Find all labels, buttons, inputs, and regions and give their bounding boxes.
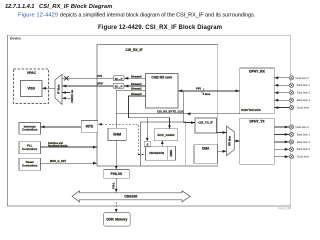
32toP box 1 (113, 76, 124, 81)
svg-text:Clock lane: Clock lane (297, 155, 310, 159)
svg-text:CBASS0: CBASS0 (124, 194, 137, 198)
wire VP2 right + arrow (124, 85, 146, 87)
PSILSS box (104, 170, 130, 179)
wire VP1 left (62, 77, 113, 79)
svg-text:VISS: VISS (27, 87, 35, 91)
inner config sub-box (141, 122, 186, 166)
TX pad wires (274, 127, 289, 157)
reset wire (41, 162, 98, 164)
svg-text:Stream1: Stream1 (131, 82, 142, 86)
PPI double arrow (178, 90, 240, 92)
svg-text:CSI_TX_IF: CSI_TX_IF (198, 120, 213, 124)
RX bond pads (289, 76, 293, 110)
svg-text:Stream2: Stream2 (131, 87, 142, 91)
svg-text:Data lane 0: Data lane 0 (296, 125, 310, 129)
wire stream2 to SHIM (116, 90, 145, 128)
svg-text:Controllers: Controllers (22, 147, 38, 151)
svg-text:Clock lane: Clock lane (297, 106, 310, 110)
VPAC dashed box (14, 69, 49, 104)
svg-text:Figure 12-4429. CSI_RX_IF Bloc: Figure 12-4429. CSI_RX_IF Block Diagram (98, 25, 222, 31)
svg-text:Data lane 0: Data lane 0 (296, 76, 310, 80)
svg-text:Controllers: Controllers (22, 128, 38, 132)
svg-text:VP2*: VP2* (97, 81, 104, 85)
wire DMA to mux (218, 150, 227, 152)
slave port small box (144, 141, 151, 146)
mux select input arrows (62, 92, 71, 94)
svg-text:CSI_RX_IF: CSI_RX_IF (125, 48, 142, 52)
svg-text:PPI: PPI (196, 86, 201, 90)
svg-text:RXBYTECLKHS: RXBYTECLKHS (241, 108, 261, 112)
PLL Controllers box (19, 142, 41, 154)
svg-text:5 lane: 5 lane (203, 92, 211, 96)
wire PSILSS to CBASS0 (115, 178, 117, 192)
VISS box (21, 81, 43, 97)
wire stream3 to config bus (129, 96, 170, 118)
CSI2 RX core box (146, 74, 179, 109)
svg-text:MOD_G_RST: MOD_G_RST (50, 159, 67, 163)
wire VP2 left + arrow into mux (62, 85, 113, 87)
svg-text:PSI-L: PSI-L (113, 182, 116, 189)
svg-text:S: S (147, 142, 149, 146)
Reset Controllers box (19, 158, 41, 170)
X mark on VP1 (64, 76, 68, 80)
svg-text:DPHY_RX: DPHY_RX (249, 69, 265, 73)
CSI_TX_IF box (195, 118, 217, 133)
TX PPI mux trapezoid (227, 126, 235, 156)
svg-text:PPI Mux: PPI Mux (228, 135, 232, 146)
VBUS2APB box (146, 146, 168, 160)
RX pad wires (274, 78, 289, 108)
svg-text:Data lane 3: Data lane 3 (297, 98, 311, 102)
TX pad labels (296, 125, 311, 159)
svg-text:DPHY_TX: DPHY_TX (249, 120, 265, 124)
clock wire (41, 146, 98, 148)
wire SHIM to PSILSS (115, 141, 117, 170)
svg-text:Stream3: Stream3 (131, 92, 142, 96)
wire INTD to interrupt controllers (41, 126, 82, 128)
TX bond pads (289, 125, 293, 159)
svg-text:SHIM: SHIM (113, 133, 121, 137)
svg-text:32→P: 32→P (115, 77, 123, 81)
wire PPI tap to CSI_TX_IF (184, 91, 195, 123)
Device box (8, 35, 291, 206)
svg-text:Figure 12-4429: Figure 12-4429 (18, 12, 58, 18)
wire mux to DPHY_TX (234, 140, 240, 142)
svg-text:Controllers: Controllers (22, 163, 38, 167)
DPHY_TX box (240, 118, 274, 164)
dashed wire CBASS0 to DDR (115, 202, 117, 213)
CSI_RX_IF box (97, 45, 218, 167)
svg-text:Data lane 2: Data lane 2 (297, 140, 311, 144)
svg-text:MMR: MMR (169, 150, 173, 157)
svg-text:CSI_RX_BYTE_CLK: CSI_RX_BYTE_CLK (157, 110, 183, 114)
svg-text:VP1: VP1 (97, 74, 103, 78)
svg-text:Data lane 1: Data lane 1 (297, 132, 311, 136)
CBASS0 interconnect arrow (72, 191, 190, 202)
ECC_AGGR box (154, 129, 177, 141)
lane slash (202, 89, 205, 94)
drop to ECC_AGGR (169, 118, 171, 129)
svg-text:CSI2 RX core: CSI2 RX core (151, 75, 172, 79)
SHIM box (108, 128, 126, 140)
mux output arrow to VISS (42, 87, 55, 89)
DMA box (194, 145, 218, 164)
svg-text:CSI2RX sel: CSI2RX sel (71, 90, 74, 104)
wire CSI_TX_IF to mux (217, 132, 227, 134)
IF mux trapezoid (55, 74, 62, 104)
svg-text:ECC_AGGR: ECC_AGGR (157, 133, 175, 137)
svg-text:32→P: 32→P (115, 84, 123, 88)
drop to slave port box (146, 118, 148, 142)
svg-text:VPAC: VPAC (27, 71, 37, 75)
svg-text:PSILSS: PSILSS (111, 172, 122, 176)
DDR memory box (104, 213, 131, 227)
svg-text:functional clocks: functional clocks (48, 145, 68, 148)
DPHY_RX box (240, 68, 274, 113)
svg-text:Stream0: Stream0 (131, 74, 142, 78)
svg-text:CSI_RX_IF Block Diagram: CSI_RX_IF Block Diagram (39, 4, 112, 10)
dashed interrupt wire to INTD (98, 124, 138, 154)
32toP box 2 (113, 83, 124, 88)
RX pad labels (296, 76, 311, 110)
svg-text:INTD: INTD (86, 125, 94, 129)
INTD box (81, 121, 98, 133)
MMR box (168, 146, 176, 160)
svg-text:Device: Device (10, 37, 21, 41)
svg-text:DMA: DMA (202, 147, 210, 151)
svg-text:csi_rx_if_bd: csi_rx_if_bd (279, 207, 292, 210)
svg-text:IF Mux: IF Mux (56, 84, 60, 94)
svg-text:Data lane 3: Data lane 3 (297, 147, 311, 151)
svg-text:VBUS2APB: VBUS2APB (149, 151, 164, 155)
BYTE_CLK wire (116, 113, 240, 115)
svg-text:Data lane 2: Data lane 2 (297, 91, 311, 95)
Interrupt Controllers box (19, 122, 41, 134)
svg-text:Data lane 1: Data lane 1 (297, 83, 311, 87)
svg-text:DDR: Memory: DDR: Memory (106, 218, 127, 222)
svg-text:12.7.1.1.4.1: 12.7.1.1.4.1 (5, 4, 35, 10)
svg-text:depicts a simplified internal: depicts a simplified internal block diag… (60, 12, 256, 18)
wire VP1 right + arrow (124, 77, 146, 79)
arrow VBUS2APB to ECC_AGGR (161, 141, 163, 147)
